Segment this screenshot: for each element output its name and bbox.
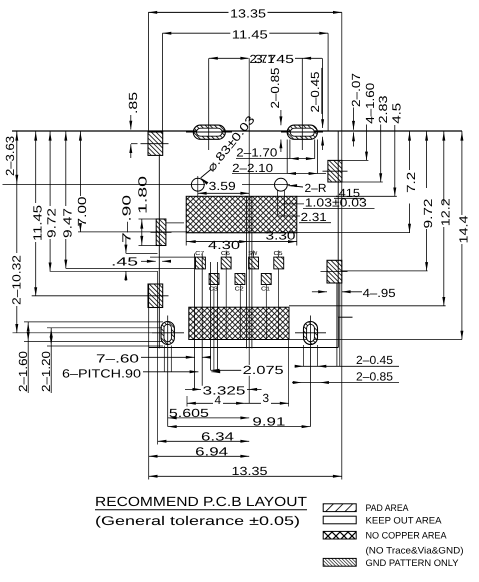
dim 2.71 (left oval center to centerline) (209, 49, 296, 66)
svg-text:3: 3 (262, 391, 269, 405)
dim 2-1.60 (16, 322, 30, 393)
svg-text:4–.95: 4–.95 (363, 286, 396, 300)
svg-text:2–0.85: 2–0.85 (268, 67, 282, 108)
svg-text:2–0.85: 2–0.85 (356, 369, 393, 383)
dim 7-.90 arrows (124, 237, 157, 281)
svg-text:13.35: 13.35 (230, 7, 267, 21)
wire top outline line y131 (12, 130, 462, 132)
dim 3.325 (185, 384, 262, 398)
dim 11.45 top (163, 27, 329, 131)
svg-text:KEEP OUT AREA: KEEP OUT AREA (365, 514, 442, 525)
dim 13.35 bottom (149, 12, 342, 479)
svg-text:PAD AREA: PAD AREA (365, 502, 409, 513)
svg-text:14.4: 14.4 (457, 215, 471, 244)
circle left (via) (191, 176, 204, 196)
svg-text:2–R: 2–R (305, 181, 327, 195)
pad P3 bottom-right (321, 260, 348, 283)
svg-text:RECOMMEND P.C.B LAYOUT: RECOMMEND P.C.B LAYOUT (95, 494, 307, 509)
dim 4-1.60 right (342, 82, 377, 160)
svg-text:13.35: 13.35 (231, 464, 268, 478)
callout dia .83 +/-0.03 with leader (200, 112, 258, 184)
legend gnd pattern only (323, 557, 459, 568)
svg-text:2.075: 2.075 (243, 363, 285, 377)
pad P2 top-right (323, 160, 348, 182)
dim 2-0.85 (oval pad height) (268, 67, 282, 152)
svg-text:12.2: 12.2 (438, 198, 452, 226)
legend no copper area (323, 530, 447, 541)
legend pad area (323, 502, 409, 513)
dim 2-1.70 (oval slot width) (236, 140, 315, 161)
svg-text:1.80: 1.80 (135, 175, 149, 214)
dim 3.59 (circle to centerline) (198, 179, 249, 195)
wire body bottom line y348.4 with step (149, 317, 353, 347)
pad C2 (235, 274, 245, 293)
wire SW legs (246, 197, 252, 349)
wire left keepout edge x159.3 (158, 155, 160, 348)
svg-text:2–10.32: 2–10.32 (9, 255, 23, 305)
svg-text:2–1.70: 2–1.70 (236, 146, 277, 160)
dim 2.83 right (342, 95, 390, 182)
pad C3 (209, 273, 219, 292)
svg-text:6.34: 6.34 (201, 429, 235, 443)
dim 4-.95 (pad width) (312, 286, 396, 300)
svg-text:2–0.45: 2–0.45 (356, 353, 393, 367)
dim 2-10.32 left (9, 184, 23, 332)
dim 4.5 right (390, 102, 404, 196)
dim 3.30 (248, 229, 297, 246)
svg-text:C5: C5 (274, 251, 283, 257)
svg-text:7.00: 7.00 (75, 196, 89, 227)
callout 2-R.415 (288, 181, 364, 200)
svg-text:9.72: 9.72 (45, 208, 59, 238)
svg-text:C2: C2 (235, 286, 244, 292)
dim 13.35 top (148, 7, 341, 131)
dim 3 (245, 340, 289, 407)
dim 2-1.20 (39, 328, 53, 393)
svg-text:9.47: 9.47 (60, 208, 74, 238)
svg-text:GND PATTERN ONLY: GND PATTERN ONLY (365, 557, 459, 568)
pad C6 (221, 251, 231, 269)
svg-text:.45: .45 (111, 254, 139, 268)
oval pad top-left (186, 58, 232, 150)
svg-text:C1: C1 (261, 286, 270, 292)
dim 6.34 (158, 271, 250, 444)
dim 9.91 (168, 415, 311, 429)
callout 1.03 +/-0.03 (282, 196, 375, 210)
dim 2-3.63 left (3, 131, 18, 184)
svg-text:4.5: 4.5 (390, 102, 404, 124)
dim 12.2 right (289, 131, 452, 306)
dim 2-0.45 bottom-right (295, 345, 399, 368)
wire right keepout edge x338.2 (337, 131, 339, 317)
svg-text:2.31: 2.31 (301, 210, 327, 224)
label 7-.90 for pad columns (120, 194, 134, 243)
svg-text:(General tolerance ±0.05): (General tolerance ±0.05) (95, 514, 300, 528)
svg-text:2–0.45: 2–0.45 (308, 71, 322, 112)
pad P4 bottom-left (32, 284, 169, 308)
svg-text:7–.90: 7–.90 (120, 194, 134, 243)
no-copper area lower (189, 307, 462, 339)
svg-text:6–PITCH.90: 6–PITCH.90 (62, 366, 142, 380)
title RECOMMEND P.C.B LAYOUT (95, 494, 307, 510)
dim 4.30 (186, 233, 248, 252)
svg-text:9.72: 9.72 (421, 199, 435, 229)
circle right (via) (275, 178, 288, 216)
svg-text:3.745: 3.745 (254, 52, 295, 66)
dim 2.075 (211, 363, 286, 377)
pad C1 (261, 274, 271, 293)
svg-text:1.03±0.03: 1.03±0.03 (305, 196, 368, 210)
oval pad bottom-right (295, 316, 326, 427)
dim 3.745 (centerline to right oval center, overlapping text) (254, 52, 322, 66)
dim 9.72 right (342, 131, 435, 271)
svg-text:(NO Trace&Via&GND): (NO Trace&Via&GND) (365, 544, 463, 555)
dim .45 (111, 254, 171, 268)
svg-text:NO COPPER AREA: NO COPPER AREA (365, 530, 447, 541)
no-copper area upper (186, 196, 410, 233)
svg-text:11.45: 11.45 (232, 27, 269, 41)
svg-text:4–1.60: 4–1.60 (363, 82, 377, 123)
svg-text:2–3.63: 2–3.63 (3, 136, 17, 176)
wire oval left extension lines (12, 322, 163, 346)
wire C7 legs (195, 253, 203, 389)
dim 2-0.85 bottom-right (292, 369, 399, 384)
pad P1 top-left (141, 132, 169, 155)
svg-text:6.94: 6.94 (195, 444, 229, 458)
svg-text:2–.07: 2–.07 (349, 73, 363, 107)
svg-text:C3: C3 (209, 286, 218, 292)
dim 9.47 left (60, 131, 74, 268)
svg-text:C6: C6 (221, 251, 230, 257)
wire C6 C2 C1 C5 center legs (226, 269, 278, 340)
wire C3 legs (211, 262, 218, 372)
dim 7.00 left (75, 131, 186, 232)
wire pads bottom lines (50, 268, 196, 271)
dim .85 (pad P1 centerline offset) (126, 91, 140, 158)
oval pad top-right (281, 58, 323, 150)
dim 6.94 (149, 444, 250, 458)
svg-text:3.325: 3.325 (202, 384, 246, 398)
wire pads top edge line (150, 250, 279, 257)
subtitle General tolerance (95, 514, 300, 528)
pad SW (248, 251, 258, 269)
oval pad bottom-left (152, 315, 184, 426)
callout 2.31 (279, 210, 332, 224)
dim 11.45 left (30, 131, 44, 296)
svg-text:5.605: 5.605 (169, 406, 210, 420)
dim 5.605 (168, 406, 249, 420)
svg-text:7–.60: 7–.60 (96, 351, 140, 365)
dim 6-PITCH.90 (62, 366, 220, 380)
svg-text:9.91: 9.91 (252, 415, 285, 429)
dim 9.72 left (45, 131, 59, 271)
dim 1.80 (pad P5 height) (135, 175, 156, 245)
svg-text:11.45: 11.45 (30, 204, 44, 241)
svg-text:2.83: 2.83 (376, 95, 390, 124)
wire P3 extension legs (337, 283, 340, 366)
dim 2-0.45 (oval slot height) (308, 58, 324, 150)
dim 7.2 right (404, 131, 418, 233)
pad C7 (195, 251, 205, 269)
svg-text:3.59: 3.59 (209, 179, 236, 193)
svg-text:3.30: 3.30 (266, 229, 297, 243)
svg-text:7.2: 7.2 (404, 172, 418, 193)
wire circles centerline y184.4 (3, 183, 291, 185)
wire center construction line x249.2 (248, 58, 250, 403)
dim 2-2.10 (oval pad width) (232, 139, 326, 175)
svg-text:C7: C7 (195, 251, 204, 257)
svg-text:.85: .85 (126, 91, 140, 114)
dim 4 (187, 393, 245, 407)
dim 7-.60 (96, 351, 211, 365)
svg-text:4: 4 (214, 393, 221, 407)
legend no trace via gnd note (365, 544, 463, 555)
pad C5 (274, 251, 284, 269)
dim 2-.07 right (349, 73, 363, 147)
svg-text:2–2.10: 2–2.10 (232, 161, 273, 175)
dim 14.4 right (456, 131, 470, 340)
pad P5 left-middle (151, 219, 185, 246)
legend keep out area (323, 514, 442, 525)
